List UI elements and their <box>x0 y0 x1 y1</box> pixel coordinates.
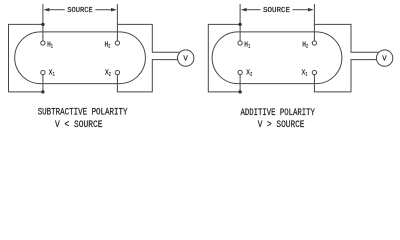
wire: jumper H1 to X2 (left loop, right diagram) <box>208 24 240 92</box>
terminal H1 (right diagram) <box>238 41 242 45</box>
dimension tail left (right diagram) <box>246 9 260 11</box>
svg-text:1: 1 <box>248 43 251 50</box>
svg-text:SUBTRACTIVE POLARITY: SUBTRACTIVE POLARITY <box>38 107 128 118</box>
SOURCE dimension arrows (right diagram) <box>241 8 314 12</box>
svg-text:2: 2 <box>109 71 112 78</box>
wire: source lead down to H1 (dimension line top to terminal) <box>42 4 44 41</box>
wire: H2 to voltmeter top lead (right diagram) <box>314 24 378 52</box>
wire: source lead down to H1 (right diagram) <box>239 4 241 41</box>
terminal H2 (bushing circle) <box>115 41 119 45</box>
svg-text:1: 1 <box>53 71 56 78</box>
svg-text:1: 1 <box>51 43 54 50</box>
svg-text:SOURCE: SOURCE <box>67 7 93 15</box>
svg-text:ADDITIVE POLARITY: ADDITIVE POLARITY <box>241 108 315 119</box>
svg-text:V: V <box>183 56 188 64</box>
terminal X1 (right diagram) <box>312 70 316 74</box>
voltmeter V1 (circle) <box>178 50 194 66</box>
terminal H1 (bushing circle) <box>41 41 45 45</box>
dimension tail right (right diagram) <box>293 9 309 11</box>
wire: X1 to voltmeter bottom lead (right diagram) <box>314 60 376 92</box>
terminal H2 (right diagram) <box>312 41 316 45</box>
wire: X1 riser to jumper <box>42 75 44 92</box>
voltmeter V2 (circle) <box>376 50 392 66</box>
wire: jumper H1 to X1 (left loop) <box>9 24 43 92</box>
svg-text:V < SOURCE: V < SOURCE <box>55 120 103 131</box>
svg-text:2: 2 <box>108 43 111 50</box>
terminal X2 (bushing circle) <box>115 70 119 74</box>
svg-text:V: V <box>382 56 387 64</box>
terminal X2 (right diagram) <box>238 70 242 74</box>
node: junction X2/jumper (right diagram) <box>238 90 241 93</box>
transformer tank T2 (stadium outline) <box>212 32 342 84</box>
svg-text:V > SOURCE: V > SOURCE <box>258 120 305 131</box>
svg-text:2: 2 <box>250 71 253 78</box>
wire: H2 to voltmeter top lead <box>117 24 179 52</box>
wire: source lead down to H2 (right diagram) <box>313 4 315 41</box>
svg-text:SOURCE: SOURCE <box>263 7 290 15</box>
wire: source lead down to H2 <box>116 4 118 41</box>
node: junction H1/source/jumper <box>41 23 44 26</box>
wire: X2 to voltmeter bottom lead <box>117 60 177 92</box>
node: junction H1/source/jumper (right diagram) <box>238 23 241 26</box>
SOURCE dimension arrows (left diagram) <box>44 8 117 12</box>
dimension tail left <box>49 9 65 11</box>
wire: X2 riser to jumper (right diagram) <box>239 75 241 92</box>
dimension tail right <box>95 9 111 11</box>
svg-text:1: 1 <box>305 71 308 78</box>
transformer tank T1 (stadium outline) <box>15 32 146 84</box>
terminal X1 (bushing circle) <box>41 70 45 74</box>
node: junction X1/jumper <box>41 90 44 93</box>
svg-text:2: 2 <box>306 43 309 50</box>
